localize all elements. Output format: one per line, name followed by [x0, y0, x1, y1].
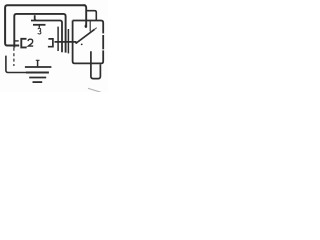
wire E horizontal — [55, 41, 77, 43]
capacitor plate v_d — [67, 29, 69, 53]
contact dot — [81, 44, 83, 46]
bracket ] blob near capacitor — [48, 39, 53, 47]
tick on L2 left edge — [14, 40, 18, 42]
ground bar 1 — [25, 66, 52, 68]
switch blade faint tip — [95, 28, 97, 30]
left-bottom vertical of ground wire — [6, 56, 26, 73]
T-bar center tick — [38, 25, 40, 28]
scan gap on loop F right edge — [102, 33, 104, 35]
inner loop L2 (left edge, top edge, right edge v_c) — [14, 14, 65, 53]
switch stub from top rail — [89, 21, 91, 32]
right loop F — [73, 21, 104, 64]
dashed wire below L2 left edge — [13, 48, 15, 66]
step branch from L1 right edge to loop F top — [86, 11, 96, 21]
small loop G left/bottom/right — [91, 51, 101, 78]
capacitor plate v_a — [57, 27, 59, 51]
ground bar 3 — [29, 77, 46, 79]
arrowhead/blob at end of L1 right edge — [85, 25, 88, 28]
T-bar symbol under wire C — [33, 24, 46, 26]
ground bar 2 (merged with rail) — [26, 72, 49, 74]
outer loop L1 right edge (dangling) — [84, 5, 87, 25]
ground bar 4 — [33, 81, 43, 83]
junction blob wire E / blade — [75, 42, 77, 44]
bracket [ label — [21, 39, 26, 48]
ground stub — [37, 60, 39, 67]
ground stub top serif — [36, 59, 40, 61]
numeral 3 — [38, 28, 41, 34]
wire C (second top line) with riser and corner into v_b — [31, 15, 62, 52]
switch blade — [76, 29, 95, 43]
faint scan smudge bottom right — [88, 88, 101, 92]
numeral 2 — [28, 39, 33, 46]
outer loop L1 top/left/bottom-stub — [5, 5, 86, 45]
